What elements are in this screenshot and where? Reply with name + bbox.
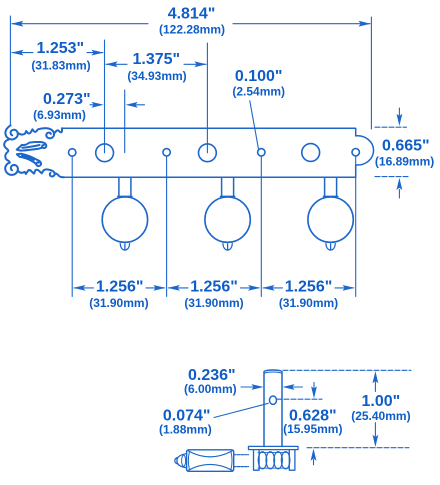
small screw hole 2 xyxy=(163,149,170,156)
leader 0.100 xyxy=(250,101,259,149)
extension line post hole 2 xyxy=(206,43,208,153)
extension line small hole 2 xyxy=(166,156,168,296)
side view string hole xyxy=(270,396,277,404)
dimension 1.256 span 3 xyxy=(263,287,353,289)
svg-text:1.256": 1.256" xyxy=(190,278,238,295)
svg-text:(31.83mm): (31.83mm) xyxy=(31,59,90,73)
extension line small hole 3 xyxy=(260,156,262,296)
button 3 tip xyxy=(323,241,337,250)
dimension 1.256 span 2 xyxy=(169,287,260,289)
small screw hole 4 on tab xyxy=(352,149,359,156)
button 2 tip xyxy=(220,241,234,250)
extension line small hole 1 xyxy=(71,156,73,296)
svg-text:1.256": 1.256" xyxy=(285,278,333,295)
svg-text:1.253": 1.253" xyxy=(36,40,84,57)
side view shaft xyxy=(234,455,249,467)
svg-text:1.00": 1.00" xyxy=(362,393,401,410)
svg-text:(31.90mm): (31.90mm) xyxy=(279,296,338,310)
dimension 1.253 line xyxy=(12,52,103,54)
button 1 knob xyxy=(102,197,147,242)
plate outline xyxy=(62,128,374,177)
svg-text:(6.00mm): (6.00mm) xyxy=(184,382,237,396)
svg-text:0.273": 0.273" xyxy=(43,91,91,108)
svg-text:0.665": 0.665" xyxy=(382,138,430,155)
svg-text:(25.40mm): (25.40mm) xyxy=(351,409,410,423)
post hole 1 xyxy=(96,144,114,162)
button 1 tip xyxy=(118,241,132,250)
dimension 1.256 span 1 xyxy=(74,287,165,289)
svg-text:0.100": 0.100" xyxy=(235,68,283,85)
side view left housing tab xyxy=(254,450,260,471)
ref line plate top right xyxy=(375,126,407,128)
side view worm gear xyxy=(258,452,290,469)
svg-text:(1.88mm): (1.88mm) xyxy=(159,423,212,437)
svg-text:4.814": 4.814" xyxy=(168,6,216,23)
svg-text:1.375": 1.375" xyxy=(132,51,180,68)
svg-text:(2.54mm): (2.54mm) xyxy=(232,85,285,99)
side view post xyxy=(264,370,282,446)
svg-text:1.256": 1.256" xyxy=(96,278,144,295)
button 2 stem xyxy=(221,177,235,196)
small screw hole 3 xyxy=(258,149,265,156)
side view right housing tab xyxy=(289,450,295,471)
dimension 0.665 arrows xyxy=(398,108,400,198)
extension line small hole 4 xyxy=(355,156,357,296)
extension line roller offset xyxy=(124,90,126,153)
ornament scroll left end xyxy=(4,125,64,177)
dimension 0.236 arrows xyxy=(241,386,303,388)
post hole 3 xyxy=(302,144,320,162)
extension line left end xyxy=(9,16,11,125)
svg-text:(122.28mm): (122.28mm) xyxy=(159,23,225,37)
svg-text:(31.90mm): (31.90mm) xyxy=(89,296,148,310)
ref line string hole xyxy=(277,398,322,400)
dimension 1.375 line xyxy=(106,63,206,65)
button 3 knob xyxy=(308,197,353,242)
extension line post hole 1 xyxy=(104,40,106,153)
post hole 2 xyxy=(199,144,217,162)
leader 0.074 xyxy=(214,403,268,417)
button 3 stem xyxy=(324,177,338,196)
dimension 4.814 line xyxy=(12,23,370,25)
ref line plate bottom right xyxy=(375,176,408,178)
dimension 1.00 arrows xyxy=(374,382,376,437)
dimension 0.273 arrows xyxy=(90,104,145,106)
svg-text:(15.95mm): (15.95mm) xyxy=(283,422,342,436)
ref line base plate top xyxy=(307,447,409,449)
button 2 knob xyxy=(205,197,250,242)
svg-text:(6.93mm): (6.93mm) xyxy=(33,108,86,122)
svg-text:(31.90mm): (31.90mm) xyxy=(184,296,243,310)
button 1 stem xyxy=(118,177,132,196)
side view button end cap xyxy=(177,454,187,468)
svg-text:(34.93mm): (34.93mm) xyxy=(127,69,186,83)
dimension 0.628 arrows xyxy=(313,383,316,465)
extension line right end xyxy=(370,17,372,129)
side view base plate xyxy=(249,446,299,449)
side view button barrel xyxy=(187,450,234,472)
svg-text:(16.89mm): (16.89mm) xyxy=(375,155,434,169)
ref line post top xyxy=(283,369,411,371)
small screw hole 1 xyxy=(69,149,76,156)
